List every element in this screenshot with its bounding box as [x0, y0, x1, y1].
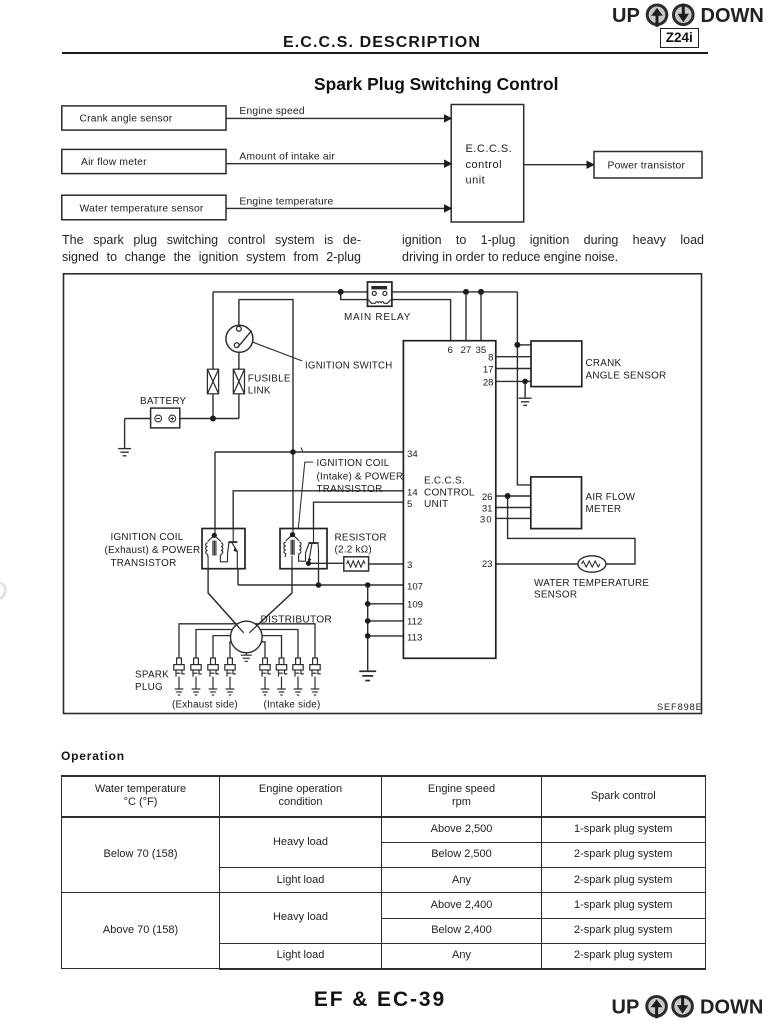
- svg-text:SENSOR: SENSOR: [534, 589, 577, 600]
- svg-text:UP: UP: [612, 5, 640, 27]
- svg-text:5: 5: [407, 499, 412, 510]
- svg-text:IGNITION SWITCH: IGNITION SWITCH: [305, 361, 393, 372]
- svg-text:109: 109: [407, 599, 423, 610]
- svg-text:WATER TEMPERATURE: WATER TEMPERATURE: [534, 578, 649, 589]
- svg-text:113: 113: [407, 633, 422, 644]
- svg-text:CONTROL: CONTROL: [424, 487, 475, 498]
- svg-text:(Exhaust) & POWER: (Exhaust) & POWER: [105, 545, 201, 556]
- svg-text:14: 14: [407, 488, 418, 499]
- svg-text:ANGLE SENSOR: ANGLE SENSOR: [586, 370, 667, 381]
- svg-text:IGNITION COIL: IGNITION COIL: [317, 458, 390, 469]
- svg-text:23: 23: [482, 559, 493, 570]
- svg-text:Power transistor: Power transistor: [608, 161, 686, 172]
- svg-text:AIR FLOW: AIR FLOW: [586, 492, 636, 503]
- svg-text:DOWN: DOWN: [700, 997, 763, 1019]
- svg-text:PLUG: PLUG: [135, 682, 163, 693]
- svg-text:26: 26: [482, 492, 493, 503]
- svg-text:(Exhaust side): (Exhaust side): [172, 700, 238, 711]
- svg-text:35: 35: [476, 345, 487, 356]
- svg-text:SPARK: SPARK: [135, 670, 169, 681]
- svg-text:E.C.C.S.: E.C.C.S.: [424, 476, 465, 487]
- svg-text:Water temperature sensor: Water temperature sensor: [80, 203, 204, 214]
- svg-text:TRANSISTOR: TRANSISTOR: [111, 558, 177, 569]
- svg-text:control: control: [466, 159, 503, 171]
- svg-text:MAIN RELAY: MAIN RELAY: [344, 312, 411, 323]
- svg-text:28: 28: [483, 377, 494, 388]
- svg-text:DOWN: DOWN: [701, 5, 764, 27]
- svg-text:Engine temperature: Engine temperature: [239, 196, 333, 207]
- svg-text:Crank angle sensor: Crank angle sensor: [80, 114, 173, 125]
- svg-text:UP: UP: [612, 997, 640, 1019]
- svg-text:8: 8: [488, 353, 493, 364]
- svg-text:6: 6: [448, 345, 453, 356]
- svg-text:(2.2 kΩ): (2.2 kΩ): [335, 544, 372, 555]
- svg-text:3: 3: [407, 560, 412, 571]
- svg-text:E.C.C.S.: E.C.C.S.: [466, 143, 513, 155]
- svg-text:DISTRIBUTOR: DISTRIBUTOR: [261, 615, 333, 626]
- svg-text:34: 34: [407, 449, 418, 460]
- svg-text:TRANSISTOR: TRANSISTOR: [317, 484, 383, 495]
- svg-text:LINK: LINK: [248, 385, 271, 396]
- svg-text:CRANK: CRANK: [586, 358, 622, 369]
- svg-text:unit: unit: [466, 175, 486, 187]
- svg-text:27: 27: [461, 345, 472, 356]
- svg-text:(Intake side): (Intake side): [264, 700, 321, 711]
- svg-text:FUSIBLE: FUSIBLE: [248, 374, 291, 385]
- svg-text:112: 112: [407, 616, 422, 627]
- svg-text:Amount of intake air: Amount of intake air: [239, 152, 335, 163]
- svg-text:31: 31: [482, 504, 493, 515]
- svg-text:(Intake) & POWER: (Intake) & POWER: [317, 472, 404, 483]
- svg-text:Air flow meter: Air flow meter: [81, 157, 147, 168]
- svg-text:107: 107: [407, 582, 423, 593]
- svg-text:17: 17: [483, 365, 494, 376]
- svg-text:Engine speed: Engine speed: [239, 106, 304, 117]
- svg-text:METER: METER: [586, 504, 622, 515]
- svg-text:UNIT: UNIT: [424, 499, 448, 510]
- svg-text:RESISTOR: RESISTOR: [335, 533, 387, 544]
- svg-text:IGNITION COIL: IGNITION COIL: [111, 532, 184, 543]
- svg-text:BATTERY: BATTERY: [140, 396, 187, 407]
- svg-text:SEF898E: SEF898E: [657, 702, 703, 712]
- svg-text:30: 30: [480, 515, 493, 526]
